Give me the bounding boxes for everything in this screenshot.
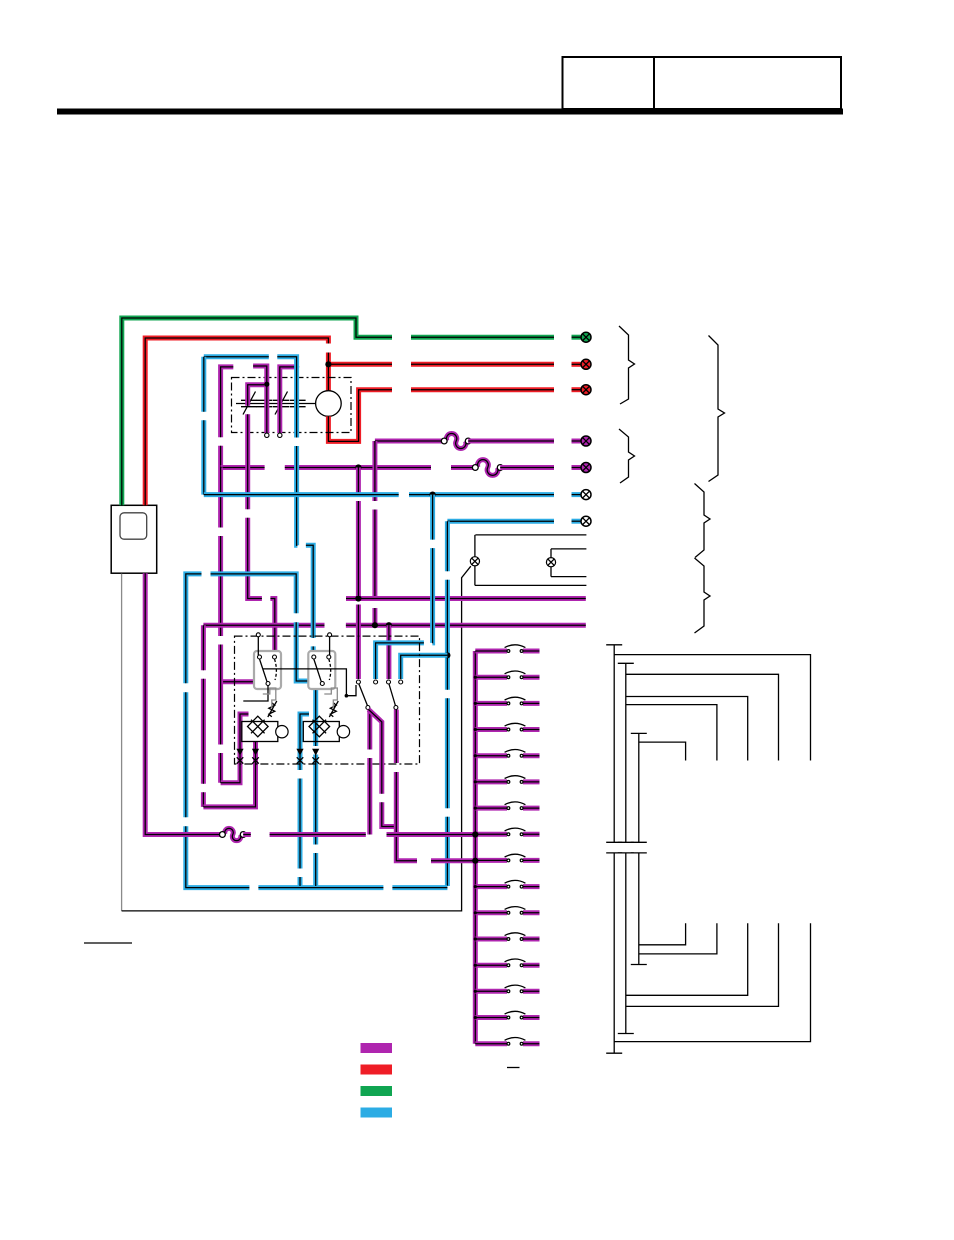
bridge BR2 rectifier [303, 716, 339, 741]
switch SW1 contacts [258, 655, 262, 659]
bridge BR1 rectifier [242, 716, 278, 741]
rail V1 lower [613, 853, 615, 1053]
capacitor C3 arrow [275, 392, 288, 415]
branch H4 upper [626, 705, 717, 761]
connector tree upper [606, 645, 810, 843]
wire magenta M1 stub and drop to row5 [221, 367, 234, 468]
switch arm K1 [359, 684, 368, 706]
connector pin circle [265, 433, 269, 437]
wire red main: connector box up and across [145, 338, 328, 505]
wire blue big loop return [186, 574, 448, 888]
capacitor C1 arrow [243, 392, 256, 415]
SW1 top pin [256, 633, 260, 637]
brace small group 1 [619, 326, 635, 404]
connector arrow at x=255.5 [252, 749, 259, 756]
switch S16 row [475, 1038, 539, 1046]
brace large right [709, 336, 725, 482]
relay pin 3 [387, 680, 391, 684]
bridge BR2 motor [337, 726, 349, 738]
wire magenta pin3 drop [388, 625, 390, 679]
K2 pole [394, 706, 398, 710]
wire magenta pole2 drop to row9 [396, 710, 475, 861]
wire magenta pole1 drop [369, 710, 371, 835]
header table cell 2 [654, 57, 841, 109]
wire magenta fused feed run [243, 834, 475, 836]
terminal T1 (green) [581, 332, 591, 342]
motor M (fan) circle [316, 391, 342, 417]
switch S14 row [475, 985, 539, 993]
branch H1 lower [614, 923, 810, 1041]
fuse F1 [441, 434, 471, 449]
wire magenta ladder bus [474, 651, 476, 1044]
wire lamp box top edge [475, 534, 586, 536]
wire ground run to lamp [122, 566, 471, 911]
wire lamp inner bottom edge [551, 576, 586, 578]
branch H3 lower [626, 923, 748, 995]
connector arrow at x=240 [236, 749, 243, 756]
wire blue row6 stub [572, 494, 581, 496]
switch S7 row [475, 802, 539, 810]
switch S15 row [475, 1011, 539, 1019]
rail V2 lower [625, 853, 627, 1034]
legend swatch blue [361, 1108, 393, 1118]
wire magenta bus B [203, 624, 585, 626]
noise suppressor box [232, 378, 352, 433]
wire magenta row4 right [468, 440, 554, 442]
switch arm K2 [389, 684, 395, 706]
wire magenta row4 [375, 440, 444, 442]
switch S12 row [475, 933, 539, 941]
wire magenta row5 stub [572, 467, 581, 469]
rail V2 upper [625, 663, 627, 842]
wire magenta M3 from blue junction [280, 367, 297, 433]
rail V3 lower [638, 853, 640, 965]
wire red row2 [328, 363, 392, 365]
switch S8 row [475, 828, 539, 836]
switch S5 row [475, 750, 539, 758]
wire magenta M2 left branch to switch1 [248, 385, 275, 656]
header table cell 1 [563, 57, 655, 109]
wire green row1 continued [411, 336, 554, 338]
wire relay internal b [263, 669, 347, 696]
wire green main: connector box to terminal row 1 [122, 318, 392, 505]
switch SW2 body [308, 651, 335, 689]
wire blue top: suppressor feed [204, 357, 313, 656]
wire magenta bus B left drop to relay pin B [202, 625, 204, 807]
wire magenta relay pin A riser [221, 714, 249, 783]
switch SW1 body [254, 651, 281, 689]
terminal T4 (magenta) [581, 436, 591, 446]
wire lamp inner top edge [551, 548, 586, 550]
wire relay internal a [243, 686, 268, 702]
wire magenta pole1 branch [369, 710, 397, 827]
lamp L2 [546, 558, 555, 567]
branch H3 upper [626, 697, 748, 761]
wire SW2 pilot [329, 637, 331, 656]
bridge BR1 resistor [268, 701, 277, 717]
relay pin 1 [356, 680, 360, 684]
terminal T2 (red) [581, 359, 591, 369]
wire magenta M2 down branch [266, 384, 268, 433]
wire magenta switch1 contact feed [221, 681, 266, 683]
relay pin 2 [374, 680, 378, 684]
wire magenta bus A [346, 598, 586, 600]
lamp L1 [470, 557, 479, 566]
switch S1 row [475, 645, 539, 653]
wire blue branch to relay pin4 [401, 655, 448, 679]
wire magenta row4 stub [572, 440, 581, 442]
branch H2 upper [626, 674, 779, 760]
wire blue drop to row6 [203, 357, 205, 495]
brace small group 2 [619, 429, 635, 483]
wire blue row7 [447, 520, 554, 522]
switch S3 row [475, 697, 539, 705]
connector pin circle [278, 433, 282, 437]
wire magenta row4 drop to bus B [374, 441, 376, 625]
legend swatch red [361, 1065, 393, 1075]
wire red row2 stub [572, 363, 581, 365]
wire magenta M2 stub tee [253, 366, 267, 384]
connector arrow at x=315.7 [312, 749, 319, 756]
capacitor C1 [241, 400, 257, 406]
wire lamp2 drop [550, 549, 552, 577]
connector tree lower [606, 853, 810, 1053]
branch H5 upper [639, 742, 686, 760]
switch S9 row [475, 854, 539, 862]
wire blue relay drops to loop [300, 681, 316, 886]
K1 pole [366, 706, 370, 710]
rail V1 upper [613, 645, 615, 843]
wire lamp box bottom edge [475, 584, 587, 586]
wire magenta M1 lower drop to relay pin A [220, 468, 222, 783]
legend swatch green [361, 1086, 393, 1096]
wire magenta pin1 drop [357, 468, 359, 680]
wire lamp1 drop [474, 535, 476, 586]
branch H2 lower [626, 923, 779, 1006]
wire red from motor to row3 [328, 390, 392, 442]
wire ground drop from connector box [121, 574, 123, 911]
switch S13 row [475, 959, 539, 967]
switch S6 row [475, 776, 539, 784]
wire magenta row5 left run [221, 467, 431, 469]
label underline ladder [507, 1067, 520, 1069]
SW2 top pin [328, 633, 332, 637]
terminal T5 (magenta) [581, 463, 591, 473]
switch S2 row [475, 671, 539, 679]
fuse F2 [472, 460, 503, 476]
branch H4 lower [639, 923, 717, 954]
wire red row3 continued [411, 389, 554, 391]
capacitor C2 [257, 400, 273, 406]
wire magenta row5 middle [451, 467, 475, 469]
capacitor C4 [290, 400, 306, 406]
wire relay internal c [346, 685, 356, 696]
label underline left [84, 942, 132, 944]
wire SW1 pilot [257, 637, 259, 656]
bridge BR1 motor [276, 726, 288, 738]
wire blue row7 drop [446, 521, 448, 886]
branch H5 lower [639, 923, 686, 945]
wire red row2 continued [411, 363, 554, 365]
capacitor C3 [273, 400, 289, 406]
terminal T3 (red) [581, 385, 591, 395]
switch S4 row [475, 723, 539, 731]
switch S11 row [475, 907, 539, 915]
switch SW2 contacts [312, 655, 316, 659]
relay pin 4 [399, 680, 403, 684]
legend swatch magenta [361, 1043, 393, 1053]
rail V3 upper [638, 733, 640, 842]
brace lower B [695, 558, 711, 633]
connector box (combination switch) [111, 505, 157, 573]
terminal T6 (blue/white) [581, 490, 591, 500]
wire green row1 stub [572, 336, 581, 338]
wire blue row6 drop to relay pin2 [376, 495, 433, 679]
brace lower A [695, 484, 711, 558]
bridge BR1 link [263, 688, 276, 708]
bridge BR2 resistor [329, 701, 338, 717]
wire magenta relay pin B riser [203, 742, 255, 807]
switch S10 row [475, 880, 539, 888]
page header rule [57, 109, 843, 115]
wire suppressor ground line [236, 403, 316, 405]
branch H1 upper [614, 655, 810, 761]
bridge BR2 link [324, 688, 337, 708]
wire blue row6 [204, 494, 554, 496]
connector arrow at x=300 [296, 749, 303, 756]
terminal T7 (blue/white) [581, 516, 591, 526]
wire red row3 stub [572, 389, 581, 391]
wire blue row7 stub [572, 520, 581, 522]
wire magenta row5 right [500, 467, 554, 469]
fuse F3 [220, 828, 247, 840]
relay control unit box [235, 636, 420, 764]
wire magenta fused feed from connector box [145, 573, 222, 834]
